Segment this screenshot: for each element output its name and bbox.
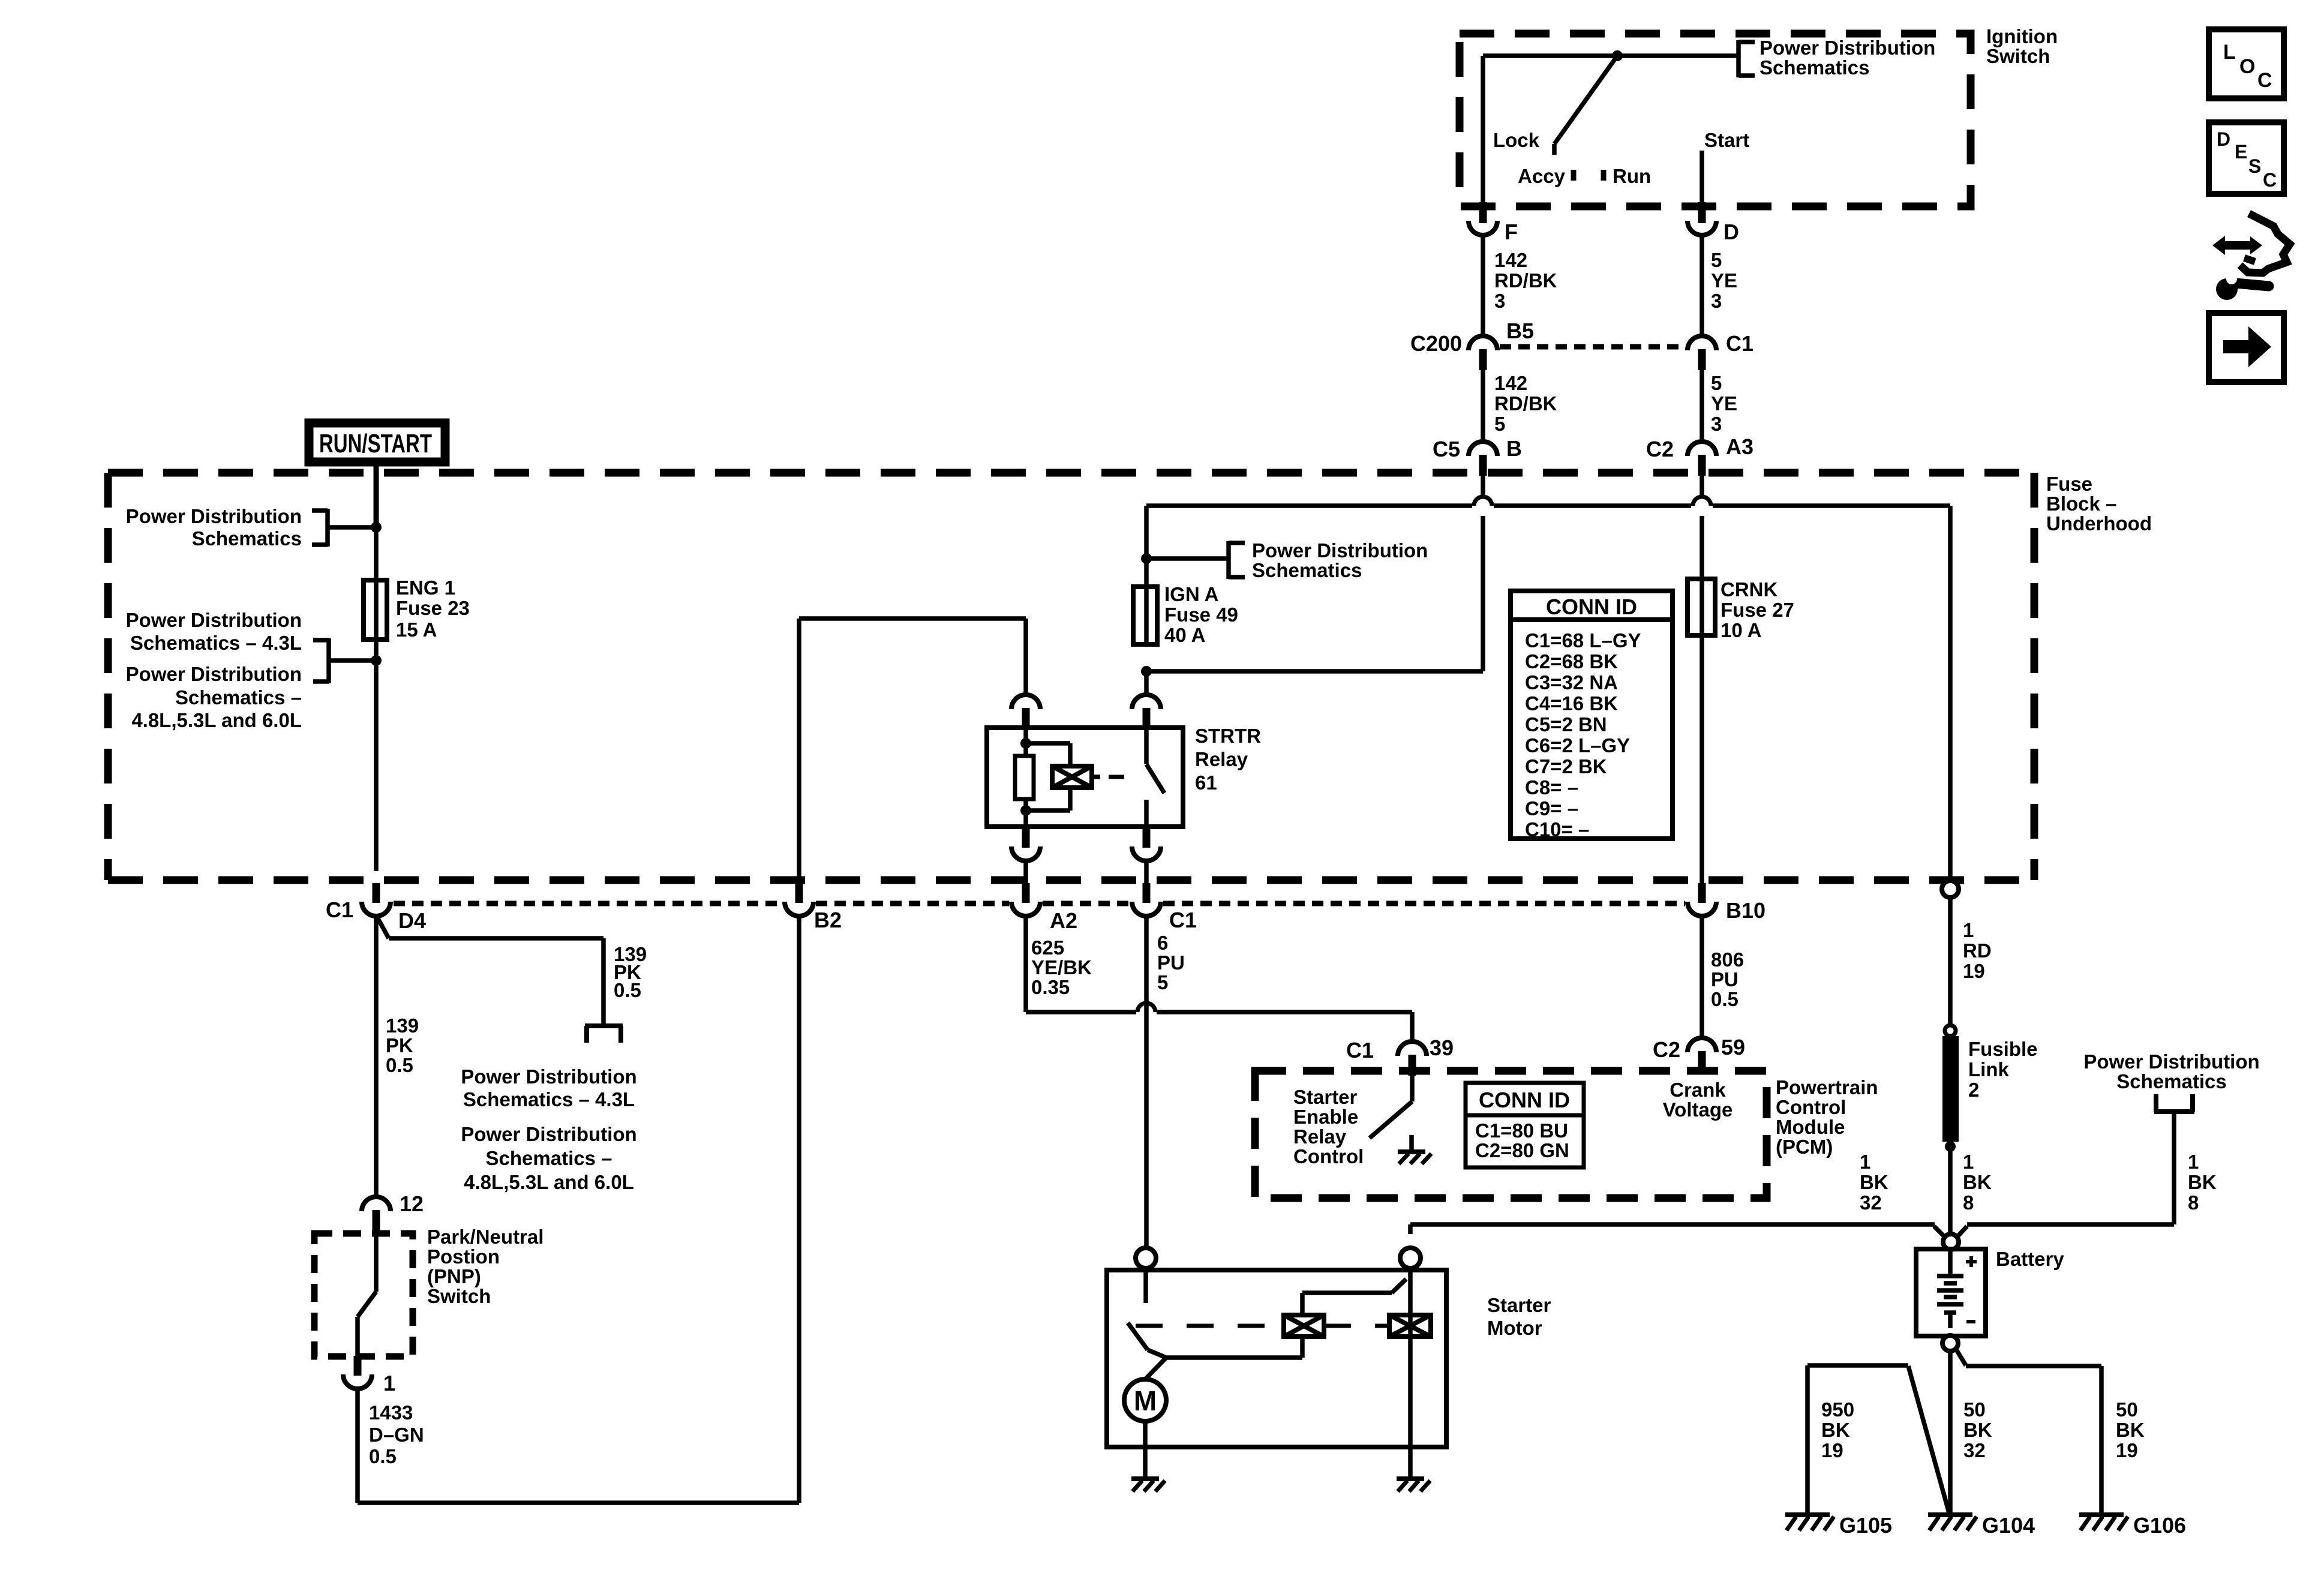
svg-text:Start: Start bbox=[1704, 129, 1749, 151]
svg-text:Schematics – 4.3L: Schematics – 4.3L bbox=[463, 1088, 635, 1110]
svg-text:Power Distribution: Power Distribution bbox=[126, 505, 302, 527]
svg-text:B2: B2 bbox=[814, 908, 842, 932]
svg-text:PU: PU bbox=[1157, 951, 1185, 974]
svg-text:Control: Control bbox=[1776, 1096, 1846, 1118]
svg-text:RD: RD bbox=[1963, 939, 1992, 962]
svg-text:19: 19 bbox=[1963, 960, 1985, 982]
svg-text:0.5: 0.5 bbox=[369, 1445, 397, 1467]
svg-text:(PCM): (PCM) bbox=[1776, 1136, 1833, 1158]
svg-text:D–GN: D–GN bbox=[369, 1424, 424, 1446]
svg-text:C2: C2 bbox=[1653, 1037, 1680, 1062]
svg-text:3: 3 bbox=[1494, 290, 1505, 312]
svg-text:CRNK: CRNK bbox=[1721, 578, 1777, 601]
svg-text:50: 50 bbox=[1963, 1398, 1986, 1421]
svg-text:Module: Module bbox=[1776, 1116, 1845, 1138]
svg-text:32: 32 bbox=[1860, 1191, 1882, 1214]
svg-text:Power Distribution: Power Distribution bbox=[461, 1123, 636, 1145]
svg-text:Fuse: Fuse bbox=[2046, 473, 2092, 495]
svg-text:Underhood: Underhood bbox=[2046, 512, 2152, 535]
svg-text:Powertrain: Powertrain bbox=[1776, 1076, 1878, 1098]
svg-text:C2: C2 bbox=[1646, 437, 1674, 461]
svg-text:YE/BK: YE/BK bbox=[1031, 956, 1092, 978]
svg-text:E: E bbox=[2235, 141, 2247, 163]
svg-text:1: 1 bbox=[383, 1371, 395, 1395]
svg-text:4.8L,5.3L and 6.0L: 4.8L,5.3L and 6.0L bbox=[464, 1171, 634, 1193]
svg-text:Motor: Motor bbox=[1487, 1317, 1542, 1339]
svg-text:625: 625 bbox=[1031, 936, 1064, 959]
svg-text:C9= –: C9= – bbox=[1525, 797, 1578, 819]
svg-text:Battery: Battery bbox=[1996, 1248, 2064, 1270]
svg-text:Fuse 27: Fuse 27 bbox=[1721, 599, 1794, 621]
svg-text:Voltage: Voltage bbox=[1663, 1098, 1733, 1121]
svg-text:Run: Run bbox=[1613, 165, 1651, 187]
svg-text:5: 5 bbox=[1157, 971, 1168, 993]
svg-text:1: 1 bbox=[1963, 1151, 1974, 1173]
svg-text:S: S bbox=[2248, 155, 2261, 177]
svg-text:BK: BK bbox=[2188, 1171, 2217, 1193]
svg-text:Accy: Accy bbox=[1518, 165, 1566, 187]
svg-text:D4: D4 bbox=[398, 908, 426, 933]
svg-text:Power Distribution: Power Distribution bbox=[126, 609, 302, 631]
svg-text:C5=2 BN: C5=2 BN bbox=[1525, 713, 1607, 736]
svg-text:Fusible: Fusible bbox=[1968, 1038, 2038, 1060]
svg-text:G104: G104 bbox=[1982, 1513, 2035, 1538]
svg-text:(PNP): (PNP) bbox=[427, 1265, 481, 1287]
svg-text:Link: Link bbox=[1968, 1058, 2009, 1080]
svg-text:C1=80 BU: C1=80 BU bbox=[1475, 1119, 1568, 1142]
svg-text:IGN A: IGN A bbox=[1164, 583, 1218, 605]
svg-text:ENG 1: ENG 1 bbox=[396, 577, 455, 599]
svg-text:BK: BK bbox=[1860, 1171, 1888, 1193]
svg-text:A3: A3 bbox=[1726, 434, 1753, 459]
svg-text:C4=16 BK: C4=16 BK bbox=[1525, 692, 1618, 715]
svg-text:Schematics: Schematics bbox=[2116, 1070, 2226, 1092]
svg-text:4.8L,5.3L and 6.0L: 4.8L,5.3L and 6.0L bbox=[131, 709, 302, 731]
svg-text:C: C bbox=[2257, 69, 2272, 92]
svg-text:6: 6 bbox=[1157, 932, 1168, 954]
svg-text:0.5: 0.5 bbox=[614, 979, 641, 1001]
svg-text:BK: BK bbox=[1821, 1419, 1850, 1441]
svg-text:F: F bbox=[1505, 220, 1518, 244]
svg-text:Fuse 23: Fuse 23 bbox=[396, 597, 470, 619]
svg-text:0.35: 0.35 bbox=[1031, 976, 1070, 998]
svg-text:Postion: Postion bbox=[427, 1245, 500, 1268]
svg-text:Schematics: Schematics bbox=[1252, 559, 1362, 581]
svg-text:B5: B5 bbox=[1506, 319, 1534, 343]
svg-text:B: B bbox=[1506, 436, 1522, 461]
svg-text:YE: YE bbox=[1711, 392, 1737, 415]
svg-text:BK: BK bbox=[2116, 1419, 2145, 1441]
svg-text:8: 8 bbox=[1963, 1191, 1974, 1214]
svg-text:39: 39 bbox=[1430, 1035, 1454, 1060]
svg-text:1: 1 bbox=[1963, 919, 1974, 941]
svg-text:19: 19 bbox=[2116, 1439, 2138, 1461]
svg-text:C10= –: C10= – bbox=[1525, 818, 1589, 840]
svg-text:C7=2 BK: C7=2 BK bbox=[1525, 755, 1607, 778]
svg-text:Power Distribution: Power Distribution bbox=[2083, 1050, 2259, 1073]
svg-text:O: O bbox=[2239, 55, 2255, 78]
svg-text:Power Distribution: Power Distribution bbox=[461, 1065, 636, 1088]
svg-text:15 A: 15 A bbox=[396, 619, 437, 641]
svg-text:142: 142 bbox=[1494, 249, 1527, 271]
svg-text:Relay: Relay bbox=[1195, 748, 1248, 770]
svg-text:19: 19 bbox=[1821, 1439, 1843, 1461]
svg-text:Enable: Enable bbox=[1293, 1106, 1358, 1128]
svg-text:Switch: Switch bbox=[1986, 45, 2050, 67]
svg-text:CONN ID: CONN ID bbox=[1546, 595, 1637, 619]
svg-text:Block –: Block – bbox=[2046, 493, 2116, 515]
svg-text:D: D bbox=[2217, 128, 2230, 150]
svg-text:Schematics: Schematics bbox=[192, 527, 302, 550]
svg-text:C2=68 BK: C2=68 BK bbox=[1525, 650, 1618, 673]
svg-text:50: 50 bbox=[2116, 1398, 2138, 1421]
svg-text:Power Distribution: Power Distribution bbox=[1252, 539, 1428, 562]
svg-text:0.5: 0.5 bbox=[386, 1054, 413, 1076]
svg-text:G105: G105 bbox=[1839, 1513, 1892, 1538]
svg-text:12: 12 bbox=[400, 1191, 424, 1216]
svg-text:806: 806 bbox=[1711, 948, 1744, 971]
svg-text:C1: C1 bbox=[326, 897, 353, 922]
svg-text:5: 5 bbox=[1494, 413, 1505, 435]
svg-text:5: 5 bbox=[1711, 249, 1722, 271]
svg-text:C1: C1 bbox=[1169, 908, 1197, 932]
svg-text:142: 142 bbox=[1494, 372, 1527, 394]
svg-text:RD/BK: RD/BK bbox=[1494, 269, 1557, 292]
svg-text:C1=68 L–GY: C1=68 L–GY bbox=[1525, 629, 1641, 652]
svg-text:0.5: 0.5 bbox=[1711, 988, 1739, 1010]
svg-text:Ignition: Ignition bbox=[1986, 25, 2058, 47]
svg-text:C6=2 L–GY: C6=2 L–GY bbox=[1525, 734, 1630, 757]
svg-text:1: 1 bbox=[2188, 1151, 2199, 1173]
svg-text:Schematics –: Schematics – bbox=[175, 686, 302, 709]
svg-text:D: D bbox=[1724, 220, 1739, 244]
svg-text:PU: PU bbox=[1711, 968, 1739, 990]
svg-text:G106: G106 bbox=[2133, 1513, 2186, 1538]
svg-text:Schematics: Schematics bbox=[1759, 56, 1869, 79]
svg-text:1433: 1433 bbox=[369, 1401, 413, 1424]
svg-text:RD/BK: RD/BK bbox=[1494, 392, 1557, 415]
svg-text:950: 950 bbox=[1821, 1398, 1854, 1421]
svg-text:A2: A2 bbox=[1050, 908, 1077, 933]
svg-text:Park/Neutral: Park/Neutral bbox=[427, 1226, 544, 1248]
svg-text:C3=32 NA: C3=32 NA bbox=[1525, 671, 1618, 694]
svg-text:Starter: Starter bbox=[1293, 1086, 1358, 1108]
svg-text:Lock: Lock bbox=[1493, 129, 1540, 151]
svg-text:2: 2 bbox=[1968, 1079, 1979, 1101]
svg-text:61: 61 bbox=[1195, 772, 1217, 794]
svg-text:1: 1 bbox=[1860, 1151, 1870, 1173]
svg-text:Schematics – 4.3L: Schematics – 4.3L bbox=[130, 632, 302, 654]
svg-text:3: 3 bbox=[1711, 413, 1722, 435]
svg-text:RUN/START: RUN/START bbox=[319, 429, 432, 458]
svg-text:Control: Control bbox=[1293, 1145, 1364, 1167]
svg-text:B10: B10 bbox=[1726, 898, 1765, 923]
svg-text:Fuse 49: Fuse 49 bbox=[1164, 604, 1238, 626]
svg-text:BK: BK bbox=[1963, 1419, 1992, 1441]
svg-text:40 A: 40 A bbox=[1164, 624, 1205, 646]
svg-text:M: M bbox=[1134, 1385, 1157, 1416]
svg-text:Relay: Relay bbox=[1293, 1125, 1347, 1148]
svg-text:C5: C5 bbox=[1433, 437, 1460, 461]
svg-text:C200: C200 bbox=[1410, 331, 1462, 356]
svg-text:139: 139 bbox=[386, 1014, 419, 1037]
svg-text:L: L bbox=[2223, 41, 2236, 64]
svg-text:C2=80 GN: C2=80 GN bbox=[1475, 1139, 1569, 1161]
svg-text:59: 59 bbox=[1721, 1035, 1745, 1059]
svg-text:C: C bbox=[2263, 169, 2277, 191]
svg-text:YE: YE bbox=[1711, 269, 1737, 292]
svg-text:Power Distribution: Power Distribution bbox=[1759, 37, 1935, 59]
svg-text:32: 32 bbox=[1963, 1439, 1986, 1461]
svg-text:CONN ID: CONN ID bbox=[1479, 1088, 1570, 1112]
svg-text:PK: PK bbox=[386, 1034, 413, 1056]
svg-text:5: 5 bbox=[1711, 372, 1722, 394]
svg-text:BK: BK bbox=[1963, 1171, 1992, 1193]
svg-text:C8= –: C8= – bbox=[1525, 776, 1578, 798]
svg-text:Schematics –: Schematics – bbox=[486, 1147, 612, 1169]
svg-text:Switch: Switch bbox=[427, 1285, 491, 1307]
svg-text:8: 8 bbox=[2188, 1191, 2199, 1214]
svg-text:Crank: Crank bbox=[1670, 1079, 1726, 1101]
svg-text:STRTR: STRTR bbox=[1195, 725, 1261, 747]
svg-text:C1: C1 bbox=[1346, 1038, 1374, 1062]
svg-text:Starter: Starter bbox=[1487, 1294, 1551, 1316]
svg-text:C1: C1 bbox=[1726, 331, 1753, 356]
svg-text:Power Distribution: Power Distribution bbox=[126, 663, 302, 685]
svg-text:10 A: 10 A bbox=[1721, 619, 1761, 641]
svg-text:3: 3 bbox=[1711, 290, 1722, 312]
